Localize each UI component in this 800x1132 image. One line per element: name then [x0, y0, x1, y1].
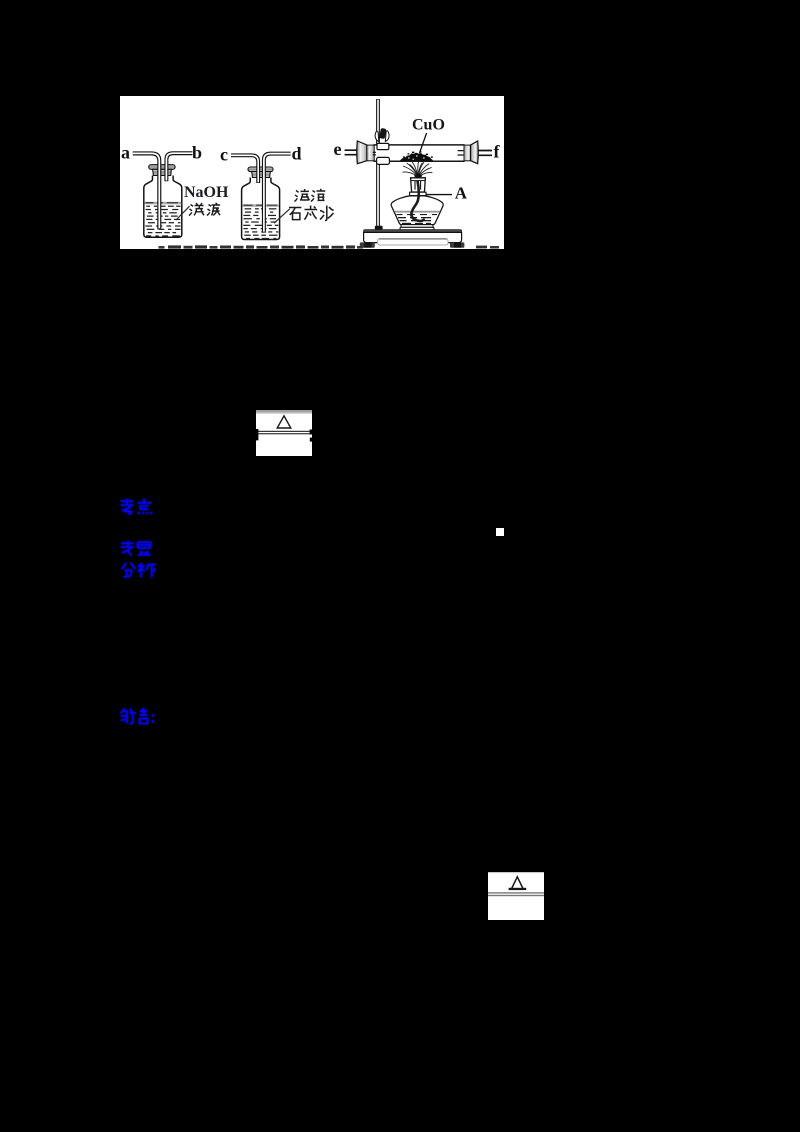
pointer line to liquid 1 — [176, 206, 190, 220]
wick inside lamp — [411, 182, 423, 221]
blue label 解答： — [120, 708, 158, 730]
svg-text:b: b — [192, 143, 202, 163]
tube stub f — [478, 151, 492, 156]
bottle 1 short tube from b — [166, 153, 192, 181]
CuO pointer line — [420, 133, 427, 153]
pointer line to liquid 2 — [274, 209, 290, 223]
bottle 1 liquid surface — [145, 202, 182, 205]
gas washing bottle 1 body — [144, 176, 182, 238]
svg-text:e: e — [334, 139, 342, 159]
bottle 2 liquid surface — [242, 204, 278, 207]
tube stub e — [345, 150, 358, 155]
clamp lower jaw — [377, 157, 390, 164]
stand base tier 2 — [378, 239, 448, 245]
double line — [257, 431, 312, 432]
blue label 考点 — [120, 498, 154, 520]
apparatus figure image — [120, 96, 504, 249]
blue label 分析 — [121, 562, 157, 583]
溶液 label (pseudo glyphs) — [189, 203, 220, 216]
bottle 2 liquid dashes — [243, 208, 278, 239]
white image background — [120, 96, 504, 249]
lamp collar — [410, 192, 426, 195]
lamp foot — [401, 225, 433, 228]
gray top band — [256, 410, 312, 414]
svg-text:d: d — [292, 144, 302, 164]
stand base top bar — [364, 230, 462, 233]
石灰水 label (pseudo glyphs) — [289, 206, 334, 221]
horizontal glass tube — [372, 145, 465, 161]
bottle 2 stopper — [248, 167, 273, 172]
lamp body — [391, 196, 443, 225]
svg-text:A: A — [455, 184, 468, 203]
svg-text:CuO: CuO — [412, 117, 445, 134]
left inner tube mark — [373, 152, 376, 155]
澄清 label (pseudo glyphs) — [295, 189, 326, 202]
black notch left — [256, 429, 258, 440]
stand feet — [360, 242, 375, 247]
CuO powder heap — [400, 153, 434, 161]
right inner tube marks — [458, 151, 464, 155]
bottle 1 stopper — [149, 165, 175, 170]
lamp liquid — [395, 211, 440, 213]
black notches right — [310, 430, 312, 435]
bottle 1 long tube from a — [133, 153, 160, 229]
clamp wings — [375, 131, 379, 141]
equation condition box 2 — [488, 872, 544, 920]
double gray line — [488, 892, 544, 893]
small white square — [496, 528, 504, 536]
left rubber stopper — [357, 141, 367, 164]
right rubber stopper — [464, 145, 471, 161]
rod foot — [375, 226, 383, 230]
triangle (delta) — [277, 416, 291, 428]
stand base body — [364, 232, 462, 242]
gas washing bottle 2 body — [242, 178, 280, 240]
bottle 1 liquid dashes — [145, 206, 180, 237]
equation condition box 1 — [256, 410, 312, 456]
lamp cap — [411, 178, 426, 192]
clamp nut — [379, 128, 386, 139]
bottle 2 short tube from c — [231, 155, 258, 183]
iron stand rod — [376, 99, 380, 229]
cropped caption text fragments — [159, 245, 500, 248]
svg-text:a: a — [121, 143, 130, 163]
bottle 2 long tube from d — [264, 154, 291, 233]
svg-text:c: c — [220, 145, 228, 165]
flame strokes — [403, 161, 433, 176]
clamp upper jaw — [377, 143, 389, 149]
blue label 专题 — [120, 541, 152, 561]
svg-text:f: f — [494, 142, 501, 162]
pointer line to A — [426, 194, 452, 196]
triangle (delta) — [511, 877, 523, 889]
wick top — [414, 174, 422, 177]
svg-text:NaOH: NaOH — [184, 184, 229, 201]
